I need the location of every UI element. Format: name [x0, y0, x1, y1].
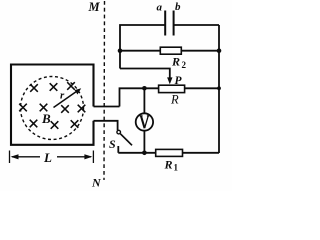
- svg-text:B: B: [41, 111, 51, 126]
- junction dot voltmeter top: [142, 86, 147, 91]
- wire: coil upper lead: [94, 106, 120, 108]
- svg-text:b: b: [175, 1, 181, 13]
- svg-text:a: a: [157, 2, 163, 14]
- switch S pivot: [117, 130, 121, 134]
- wire: right rail: [218, 25, 220, 153]
- svg-text:R: R: [164, 158, 173, 172]
- radius arrow r: [54, 90, 79, 107]
- dimension L arrows: [10, 151, 94, 164]
- svg-text:1: 1: [174, 163, 179, 173]
- voltmeter wire upper: [143, 88, 145, 119]
- wire: up to R row: [120, 88, 159, 106]
- field boundary circle (dashed): [21, 77, 84, 140]
- svg-text:S: S: [109, 137, 116, 151]
- junction dot R2 left: [118, 48, 123, 53]
- svg-text:M: M: [88, 0, 101, 14]
- voltmeter wire lower: [143, 131, 145, 153]
- wire: R2 branch: [120, 50, 219, 52]
- svg-text:2: 2: [182, 60, 187, 70]
- svg-text:L: L: [43, 150, 52, 165]
- boundary line MN (dashed): [103, 1, 106, 180]
- wire: top wire right of capacitor: [174, 24, 219, 26]
- wire: coil lower lead: [94, 121, 118, 130]
- flux cross symbols: [19, 82, 85, 129]
- resistor R1: [156, 149, 183, 156]
- wire: bottom: [118, 152, 219, 154]
- voltmeter V: [136, 113, 153, 130]
- junction dot R right rail: [217, 86, 221, 90]
- switch S stub: [117, 146, 119, 153]
- capacitor plates: [165, 11, 173, 36]
- resistor R2: [160, 47, 181, 54]
- wire: R row right: [185, 87, 219, 89]
- coil square loop: [11, 65, 94, 145]
- svg-text:R: R: [171, 55, 180, 69]
- svg-text:N: N: [91, 176, 102, 190]
- resistor R: [159, 85, 185, 92]
- slider arrow P head: [167, 77, 172, 84]
- wire: left rail + top wire to capacitor: [120, 25, 165, 69]
- junction dot voltmeter bottom: [142, 151, 147, 156]
- junction dot R2 right: [217, 48, 222, 53]
- switch S blade: [120, 134, 132, 146]
- svg-text:r: r: [60, 90, 65, 102]
- wire: slider feed: [120, 69, 170, 80]
- svg-text:R: R: [170, 93, 179, 107]
